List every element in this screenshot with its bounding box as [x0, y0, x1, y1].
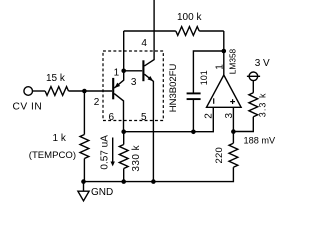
svg-text:HN3B02FU: HN3B02FU: [168, 63, 179, 112]
svg-text:15 k: 15 k: [46, 73, 66, 84]
svg-text:GND: GND: [91, 187, 113, 198]
svg-text:4: 4: [141, 38, 147, 49]
svg-text:6: 6: [109, 112, 115, 123]
svg-text:(TEMPCO): (TEMPCO): [29, 150, 76, 161]
svg-text:330 k: 330 k: [131, 144, 142, 171]
svg-text:1 k: 1 k: [53, 133, 67, 144]
svg-text:100 k: 100 k: [177, 12, 202, 23]
svg-text:188 mV: 188 mV: [244, 136, 277, 146]
svg-text:101: 101: [199, 70, 209, 85]
svg-text:5: 5: [141, 112, 147, 123]
svg-text:2: 2: [204, 113, 215, 119]
svg-text:1: 1: [114, 68, 120, 79]
svg-text:3: 3: [224, 113, 235, 119]
svg-text:3: 3: [131, 77, 137, 88]
svg-text:3.3 k: 3.3 k: [258, 92, 268, 117]
svg-text:LM358: LM358: [228, 48, 238, 74]
svg-text:CV IN: CV IN: [13, 101, 43, 112]
svg-text:3 V: 3 V: [255, 58, 270, 69]
svg-text:2: 2: [94, 97, 100, 108]
svg-text:0.57 uA: 0.57 uA: [99, 135, 110, 170]
svg-text:220: 220: [214, 147, 225, 163]
svg-text:1: 1: [215, 64, 226, 70]
